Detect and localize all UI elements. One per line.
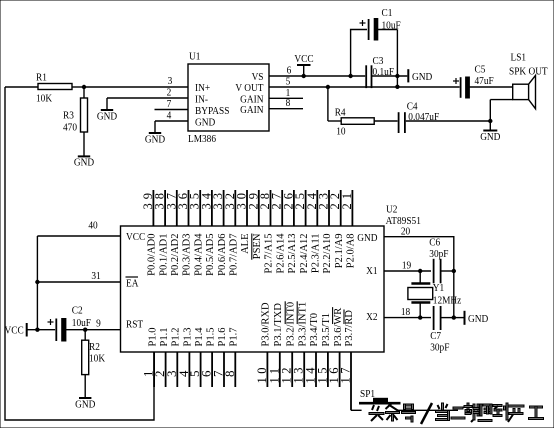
U2 pin 38 (P0.1/AD1) stub, number and label xyxy=(153,189,170,276)
U2 pin 15 (P3.5/T1) stub, number and label xyxy=(315,313,332,387)
svg-text:R4: R4 xyxy=(335,107,346,119)
svg-text:SP1: SP1 xyxy=(360,388,375,400)
pushbutton SP1 xyxy=(359,388,401,413)
node junction R1/R3/U1.IN+ xyxy=(82,85,86,89)
svg-text:X1: X1 xyxy=(366,265,377,277)
svg-text:P3.2/INT0: P3.2/INT0 xyxy=(285,302,296,347)
svg-text:P0.3/AD3: P0.3/AD3 xyxy=(182,234,193,276)
wire U1 pin 6 VS with pin number 6 xyxy=(269,65,365,77)
svg-text:P3.7/RD: P3.7/RD xyxy=(344,310,355,347)
resistor R1 10K xyxy=(5,72,84,105)
svg-text:P2.1/A9: P2.1/A9 xyxy=(334,234,345,269)
U2 pin 17 (P3.7/RD) stub, number and label xyxy=(339,309,356,410)
svg-text:20: 20 xyxy=(401,226,410,238)
svg-text:40: 40 xyxy=(88,220,97,232)
svg-text:P3.3/INT1: P3.3/INT1 xyxy=(297,302,308,347)
U2 pin 11 (P3.1/TXD) stub, number and label xyxy=(267,303,284,387)
svg-text:P1.7: P1.7 xyxy=(229,328,240,347)
svg-text:U1: U1 xyxy=(189,51,200,63)
ground at U1 IN- xyxy=(97,98,117,123)
svg-text:P2.3/A11: P2.3/A11 xyxy=(311,234,322,274)
svg-text:10K: 10K xyxy=(89,353,106,365)
svg-text:10K: 10K xyxy=(36,93,53,105)
U2 pin 33 (P0.6/AD6) stub, number and label xyxy=(211,189,228,276)
wire U2 pin 19 X1 with number 19 xyxy=(384,260,431,273)
node junction VCC bus / RST line xyxy=(35,328,39,332)
svg-text:C1: C1 xyxy=(382,7,393,19)
U2 pin 4 (P1.3) stub, number and label xyxy=(176,328,194,387)
U2 pin 7 (P1.6) stub, number and label xyxy=(211,328,229,387)
svg-text:P2.2/A10: P2.2/A10 xyxy=(322,234,333,274)
capacitor C5 47uF (polarized) xyxy=(453,64,494,98)
VCC symbol at RST network xyxy=(5,323,56,337)
U2 pin 32 (P0.7/AD7) stub, number and label xyxy=(223,189,240,276)
wire C2 to U2 RST pin 9 with number 9 xyxy=(66,318,121,330)
svg-text:GND: GND xyxy=(74,157,94,169)
svg-text:GND: GND xyxy=(97,111,117,123)
VCC symbol at U1 VS xyxy=(294,53,313,78)
wire U1 pin 2 IN- with pin number 2 xyxy=(107,87,188,99)
U2 pin 16 (P3.6/WR) stub, number and label xyxy=(327,307,344,387)
op-amp U1 LM386 body with pin labels xyxy=(188,51,269,145)
svg-text:LM386: LM386 xyxy=(188,133,216,145)
U2 pin 23 (P2.2/A10) stub, number and label xyxy=(317,189,334,273)
U2 pin 3 (P1.2) stub, number and label xyxy=(164,328,182,387)
svg-text:19: 19 xyxy=(402,260,411,272)
svg-text:P2.5/A13: P2.5/A13 xyxy=(287,234,298,274)
svg-text:P3.0/RXD: P3.0/RXD xyxy=(261,302,272,346)
wire V OUT down to R4 xyxy=(328,87,341,121)
svg-text:GND: GND xyxy=(357,232,377,244)
svg-text:C2: C2 xyxy=(72,305,83,317)
svg-text:2: 2 xyxy=(167,87,172,99)
U2 pin 28 (P2.7/A15) stub, number and label xyxy=(258,189,275,273)
svg-text:31: 31 xyxy=(91,270,100,282)
wire from R1 input down left edge and along bottom to U2 pin 1 (P1.0) xyxy=(5,87,154,420)
ground under R2 xyxy=(75,398,95,411)
svg-text:U2: U2 xyxy=(386,204,397,216)
wire U2 pin 18 X2 with number 18 xyxy=(384,306,431,319)
svg-text:470: 470 xyxy=(63,122,77,134)
ground at U1 pin 4 xyxy=(145,133,165,146)
ground below speaker return xyxy=(480,121,500,143)
U2 pin 27 (P2.6/A14) stub, number and label xyxy=(270,189,287,273)
svg-text:P0.6/AD6: P0.6/AD6 xyxy=(217,234,228,276)
svg-text:P1.3: P1.3 xyxy=(183,328,194,347)
svg-text:P0.7/AD7: P0.7/AD7 xyxy=(229,234,240,276)
svg-text:EA: EA xyxy=(126,278,139,290)
crystal Y1 12MHz xyxy=(408,271,462,318)
U2 pin 8 (P1.7) stub, number and label xyxy=(222,328,240,387)
node junction C4 / speaker return / ground xyxy=(488,119,492,123)
wire U2 pin 20 GND with number 20 xyxy=(384,226,454,318)
svg-text:C7: C7 xyxy=(430,330,441,342)
svg-text:P1.5: P1.5 xyxy=(205,328,216,347)
U2 pin 36 (P0.3/AD3) stub, number and label xyxy=(176,189,193,276)
svg-text:V OUT: V OUT xyxy=(235,82,264,94)
svg-text:VCC: VCC xyxy=(5,325,24,337)
U2 pin 22 (P2.1/A9) stub, number and label xyxy=(328,189,345,268)
resistor R2 10K xyxy=(82,330,106,398)
wire speaker return xyxy=(490,100,512,121)
U2 pin 1 (P1.0) stub, number and label xyxy=(141,328,159,387)
U2 pin 29 (PSEN) stub, number and label xyxy=(246,189,263,260)
svg-text:10uF: 10uF xyxy=(72,317,91,329)
svg-text:C5: C5 xyxy=(475,64,486,76)
U2 pin 13 (P3.3/INT1) stub, number and label xyxy=(292,301,309,387)
U2 pin 14 (P3.4/T0) stub, number and label xyxy=(304,313,321,387)
svg-text:P2.0/A8: P2.0/A8 xyxy=(346,234,357,269)
svg-text:Y1: Y1 xyxy=(433,282,444,294)
svg-text:5: 5 xyxy=(286,76,291,88)
capacitor C2 10uF (polarized) xyxy=(48,305,92,341)
wire from SP1 right terminal xyxy=(398,409,458,411)
U2 pin 37 (P0.2/AD2) stub, number and label xyxy=(164,189,181,276)
watermark text bottom right xyxy=(369,403,544,424)
wire U1 pin 4 GND with pin number 4 xyxy=(155,110,188,133)
wire U2 pin 31 EA with number 31 xyxy=(35,270,120,284)
wire U1 pin 7 BYPASS stub with pin number 7 xyxy=(155,98,189,110)
U2 pin 30 (ALE) stub, number and label xyxy=(235,189,252,254)
svg-text:17: 17 xyxy=(339,364,353,384)
ground under R3 xyxy=(74,156,94,169)
U2 pin 35 (P0.4/AD4) stub, number and label xyxy=(188,189,205,276)
svg-text:10uF: 10uF xyxy=(382,20,401,32)
svg-text:GND: GND xyxy=(480,131,500,143)
svg-text:P1.2: P1.2 xyxy=(171,328,182,347)
U2 pin 12 (P3.2/INT0) stub, number and label xyxy=(280,301,297,387)
svg-text:VCC: VCC xyxy=(126,231,145,243)
svg-text:7: 7 xyxy=(167,98,172,110)
node junction V OUT to R4 branch xyxy=(326,85,330,89)
capacitor C6 30pF xyxy=(429,237,456,283)
svg-text:P3.1/TXD: P3.1/TXD xyxy=(273,303,284,347)
microcontroller U2 AT89S51 body with EA overline xyxy=(121,204,421,352)
node junction RST / R2 xyxy=(83,328,87,332)
svg-text:ALE: ALE xyxy=(240,234,251,254)
svg-text:R3: R3 xyxy=(63,110,74,122)
svg-text:8: 8 xyxy=(286,98,291,110)
wire U1 pin 1 GAIN stub with pin number 1 xyxy=(269,87,303,99)
svg-text:C6: C6 xyxy=(429,237,440,249)
svg-text:P0.1/AD1: P0.1/AD1 xyxy=(158,234,169,276)
svg-text:GAIN: GAIN xyxy=(240,104,264,116)
svg-text:GND: GND xyxy=(145,134,165,146)
wire U1 pin 5 V OUT with pin number 5 xyxy=(269,76,460,88)
svg-text:47uF: 47uF xyxy=(475,75,494,87)
svg-text:P0.4/AD4: P0.4/AD4 xyxy=(193,233,204,276)
svg-text:P0.5/AD5: P0.5/AD5 xyxy=(205,234,216,276)
svg-text:P0.2/AD2: P0.2/AD2 xyxy=(170,234,181,276)
ground right of C3 xyxy=(408,69,432,83)
svg-text:10: 10 xyxy=(336,126,345,138)
capacitor C4 0.047uF xyxy=(399,101,440,133)
svg-text:PSEN: PSEN xyxy=(252,233,263,259)
wire R4 to C4 xyxy=(374,120,397,122)
capacitor C3 0.1uF xyxy=(366,55,407,88)
svg-text:P1.0: P1.0 xyxy=(147,328,158,347)
svg-text:R1: R1 xyxy=(36,72,47,84)
svg-text:P3.4/T0: P3.4/T0 xyxy=(309,313,320,347)
svg-text:GND: GND xyxy=(195,117,215,129)
svg-text:P2.7/A15: P2.7/A15 xyxy=(264,234,275,274)
wire C5 to speaker LS1 xyxy=(469,86,512,88)
svg-text:21: 21 xyxy=(340,189,354,210)
svg-text:18: 18 xyxy=(401,306,410,318)
svg-text:GND: GND xyxy=(468,313,488,325)
svg-text:X2: X2 xyxy=(366,311,377,323)
svg-text:30pF: 30pF xyxy=(430,342,449,354)
svg-text:9: 9 xyxy=(96,318,101,330)
wire VCC bus vertical xyxy=(36,236,38,330)
resistor R3 470 xyxy=(63,87,88,156)
svg-text:P1.6: P1.6 xyxy=(217,328,228,347)
U2 pin 10 (P3.0/RXD) stub, number and label xyxy=(255,302,272,387)
U2 pin 25 (P2.4/A12) stub, number and label xyxy=(293,189,310,273)
U2 pin 24 (P2.3/A11) stub, number and label xyxy=(305,189,322,273)
U2 pin 39 (P0.0/AD0) stub, number and label xyxy=(141,189,158,276)
U2 pin 21 (P2.0/A8) stub, number and label xyxy=(340,189,357,268)
capacitor C1 10uF (polarized, bridging VS to V OUT) xyxy=(348,7,401,89)
svg-text:RST: RST xyxy=(126,319,144,331)
wire U2 pin 17 to SP1 xyxy=(351,409,362,411)
svg-text:8: 8 xyxy=(222,371,237,378)
svg-text:P1.1: P1.1 xyxy=(159,328,170,347)
svg-text:LS1: LS1 xyxy=(511,52,527,64)
U2 pin 5 (P1.4) stub, number and label xyxy=(187,327,205,387)
svg-text:VCC: VCC xyxy=(294,53,313,65)
svg-text:IN+: IN+ xyxy=(195,82,210,94)
wire U2 pin 40 VCC with number 40 xyxy=(37,220,120,236)
U2 pin 6 (P1.5) stub, number and label xyxy=(199,328,217,387)
svg-text:GND: GND xyxy=(412,71,432,83)
U2 pin 34 (P0.5/AD5) stub, number and label xyxy=(199,189,216,276)
U2 pin 26 (P2.5/A13) stub, number and label xyxy=(281,189,298,273)
svg-text:GND: GND xyxy=(75,399,95,411)
svg-text:3: 3 xyxy=(168,75,173,87)
wire C4 to speaker-return node xyxy=(406,120,491,122)
speaker LS1 SPK OUT xyxy=(509,52,548,109)
svg-text:SPK OUT: SPK OUT xyxy=(509,66,548,78)
svg-text:BYPASS: BYPASS xyxy=(195,105,230,117)
svg-text:P2.4/A12: P2.4/A12 xyxy=(299,234,310,274)
resistor R4 10 xyxy=(335,107,375,138)
svg-text:P2.6/A14: P2.6/A14 xyxy=(275,233,286,274)
ground right of X2 xyxy=(454,311,488,325)
svg-text:P1.4: P1.4 xyxy=(194,327,205,347)
svg-text:12MHz: 12MHz xyxy=(433,295,462,307)
svg-text:P3.5/T1: P3.5/T1 xyxy=(321,313,332,347)
wire U1 pin 3 IN+ with pin number 3 xyxy=(84,75,188,87)
wire U1 pin 8 GAIN stub with pin number 8 xyxy=(269,98,303,110)
svg-text:4: 4 xyxy=(167,110,172,122)
capacitor C7 30pF xyxy=(430,306,456,354)
svg-text:R2: R2 xyxy=(89,341,100,353)
svg-text:IN-: IN- xyxy=(195,94,209,106)
svg-text:P3.6/WR: P3.6/WR xyxy=(333,308,344,347)
svg-text:30pF: 30pF xyxy=(429,248,448,260)
svg-text:P0.0/AD0: P0.0/AD0 xyxy=(147,234,158,276)
svg-text:0.1uF: 0.1uF xyxy=(373,66,395,78)
U2 pin 2 (P1.1) stub, number and label xyxy=(152,328,170,387)
